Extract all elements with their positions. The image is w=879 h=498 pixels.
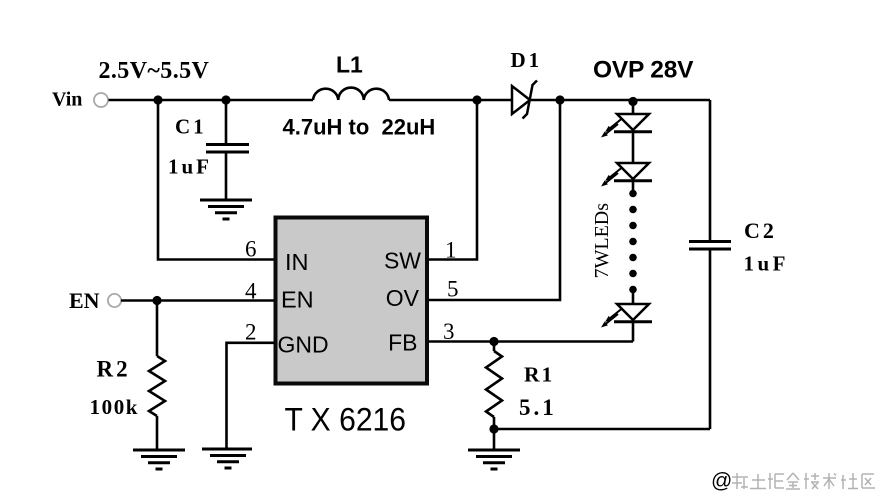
- wire LED2 to dots: [632, 181, 635, 190]
- svg-text:OVP 28V: OVP 28V: [593, 57, 694, 84]
- svg-text:1uF: 1uF: [168, 155, 212, 179]
- node Vin terminal: [94, 93, 108, 107]
- wire SW branch vertical: [428, 100, 477, 260]
- wire bottom rail (R1 to right rail): [494, 428, 710, 431]
- node EN terminal: [108, 294, 121, 307]
- wire IN branch vertical: [158, 100, 275, 260]
- wire top rail left (Vin to L1): [109, 99, 314, 102]
- svg-text:5: 5: [447, 277, 459, 302]
- svg-text:@: @: [711, 470, 732, 493]
- svg-text:6: 6: [245, 237, 257, 262]
- LED 2: [601, 163, 652, 187]
- 技: [804, 473, 819, 489]
- svg-text:4.7uH to 22uH: 4.7uH to 22uH: [283, 115, 436, 140]
- svg-text:GND: GND: [278, 332, 329, 358]
- svg-text:1: 1: [445, 238, 457, 263]
- svg-text:1uF: 1uF: [744, 252, 790, 276]
- ground under GND pin: [202, 449, 252, 468]
- svg-text:R1: R1: [524, 363, 554, 387]
- node junction at SW branch: [472, 95, 481, 104]
- node junction at R1 bottom: [489, 424, 498, 433]
- wire right rail top (to C2): [709, 100, 712, 241]
- svg-text:7WLEDs: 7WLEDs: [591, 203, 613, 279]
- wire EN to IC: [121, 299, 274, 302]
- svg-text:2: 2: [245, 320, 257, 345]
- svg-text:C1: C1: [175, 115, 207, 139]
- ground under C1: [200, 200, 252, 219]
- svg-text:FB: FB: [388, 330, 417, 356]
- svg-text:C2: C2: [744, 218, 777, 243]
- svg-text:EN: EN: [281, 287, 314, 313]
- node junction at R2: [152, 296, 161, 305]
- node junction at C1 branch: [221, 95, 230, 104]
- wire top rail right (L1 to D1): [389, 99, 512, 102]
- svg-text:R2: R2: [97, 357, 131, 382]
- svg-text:D1: D1: [511, 48, 543, 72]
- 术: [823, 473, 836, 489]
- wire top rail right of D1: [531, 99, 710, 102]
- wire OV branch vertical: [428, 100, 560, 300]
- 掘: [768, 473, 784, 489]
- ellipsis dots (LED string continuation): [629, 190, 637, 294]
- wire right rail bottom (C2 to bottom wire): [709, 250, 712, 429]
- LED 1: [601, 114, 652, 138]
- svg-text:SW: SW: [384, 248, 421, 274]
- 区: [862, 474, 875, 488]
- LED 3: [601, 304, 652, 328]
- svg-text:Vin: Vin: [52, 89, 82, 111]
- resistor R1: [486, 342, 502, 430]
- wire FB rail: [428, 340, 633, 343]
- node junction at IN branch: [153, 95, 162, 104]
- resistor R2: [149, 301, 165, 450]
- node junction at LED branch: [628, 97, 637, 106]
- 社: [841, 473, 858, 489]
- svg-text:L1: L1: [336, 52, 363, 78]
- svg-text:OV: OV: [386, 285, 420, 311]
- svg-text:IN: IN: [285, 249, 309, 275]
- node junction at R1 top: [489, 337, 498, 346]
- node junction after D1: [555, 95, 564, 104]
- capacitor C2: [689, 242, 731, 250]
- wire GND pin to ground: [227, 343, 275, 448]
- capacitor C1: [206, 100, 249, 199]
- wire dots to LED3: [632, 293, 635, 304]
- LED string: wire to first LED: [632, 100, 635, 114]
- svg-text:T X 6216: T X 6216: [285, 402, 407, 438]
- wire LED3 to FB rail: [632, 322, 635, 342]
- 金: [786, 473, 800, 489]
- wire R1 bottom to ground: [493, 429, 496, 449]
- 土: [750, 474, 766, 489]
- inductor L1: [313, 88, 389, 100]
- wire between LED1 and LED2: [632, 132, 635, 163]
- ground under R2: [133, 450, 185, 469]
- 稀: [732, 473, 748, 489]
- svg-text:2.5V~5.5V: 2.5V~5.5V: [99, 58, 210, 84]
- svg-text:100k: 100k: [90, 395, 140, 419]
- ground under R1: [468, 450, 520, 469]
- IC U1 TX6216: [276, 218, 428, 384]
- svg-text:EN: EN: [69, 288, 100, 313]
- diode D1: [512, 81, 537, 119]
- svg-text:5.1: 5.1: [519, 395, 557, 420]
